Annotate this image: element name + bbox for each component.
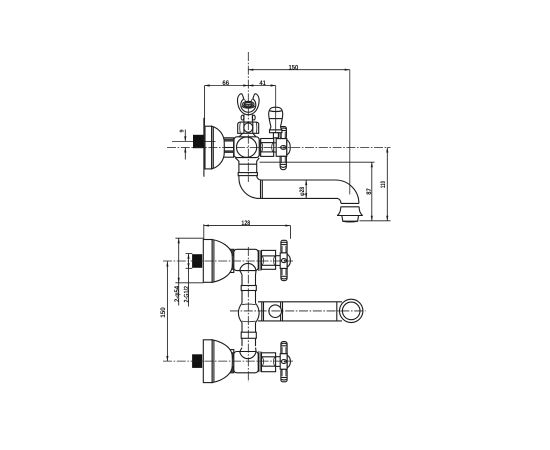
dim 150 vertical <box>160 261 167 361</box>
vertical pipe below valve body <box>235 158 261 199</box>
diverter knob (teardrop) <box>269 107 283 138</box>
inlet assembly 2 (cold, mirrored) <box>192 340 290 383</box>
dim 66 <box>205 80 249 126</box>
vertical pipe edges <box>242 275 256 347</box>
hub stub <box>287 254 290 267</box>
valve body <box>234 249 258 270</box>
nipple hidden line upper <box>172 140 193 142</box>
dim 128 <box>204 220 291 240</box>
cross handle top arm (edge-on) <box>280 127 286 139</box>
hub ellipse <box>281 259 286 263</box>
centerline spout arm <box>230 310 366 312</box>
dim 87 <box>260 162 375 221</box>
dim 150 <box>248 64 349 71</box>
right elbow of spout <box>336 180 359 203</box>
ball junction <box>238 303 259 322</box>
main valve body (top view) <box>234 137 259 158</box>
dim phi28 <box>299 180 306 198</box>
cross handle hub <box>274 142 277 144</box>
branch arch <box>240 263 256 270</box>
hub screw ellipse <box>281 146 287 150</box>
boss circle on arm <box>269 305 282 318</box>
pipe collar lower <box>241 332 256 338</box>
pipe collar upper <box>241 286 256 291</box>
spout outlet tip <box>342 215 359 221</box>
dim phi54 <box>174 238 204 305</box>
handle hub <box>280 253 287 269</box>
spout end cap outer <box>340 299 363 322</box>
svg-text:110: 110 <box>380 181 387 188</box>
shower hose cradle <box>238 94 260 115</box>
spout swivel tube <box>259 180 363 222</box>
spout end cap inner <box>342 302 360 320</box>
centerline horizontal (valve axis) <box>167 146 391 148</box>
svg-text:87: 87 <box>366 188 373 195</box>
nipple hidden line right <box>204 140 216 142</box>
escutcheon nut <box>226 249 234 272</box>
bonnet hex (right side) <box>259 139 273 157</box>
bonnet hex <box>262 250 276 269</box>
escutcheon nut (top view) <box>223 138 234 157</box>
svg-text:41: 41 <box>259 80 266 87</box>
neck between nut and body <box>234 143 239 145</box>
svg-text:φ28: φ28 <box>299 187 306 196</box>
transition hex to body <box>239 134 243 137</box>
spout outlet bell <box>337 207 340 216</box>
centerline inlet1 <box>163 260 293 262</box>
escutcheon flange <box>203 240 212 283</box>
wall nipple (black) <box>193 135 204 148</box>
dim 41 <box>248 80 275 87</box>
svg-text:150: 150 <box>160 307 167 318</box>
svg-text:2-G1/2: 2-G1/2 <box>183 286 190 303</box>
wire wall face line <box>203 118 205 177</box>
svg-text:150: 150 <box>289 64 299 71</box>
centerline inlet2 <box>163 360 293 362</box>
spout outlet collar <box>341 202 359 204</box>
escutcheon flange (top view) <box>205 126 212 169</box>
knob axis extension <box>275 86 277 134</box>
svg-text:9: 9 <box>179 129 185 132</box>
inlet assembly 1 (hot) <box>192 240 290 283</box>
svg-text:66: 66 <box>222 80 229 87</box>
union collar <box>238 173 257 176</box>
spout end axis extension <box>349 70 351 195</box>
left elbow of spout <box>239 178 259 198</box>
svg-text:2-φ54: 2-φ54 <box>174 286 181 302</box>
dim 9 <box>179 129 185 159</box>
skirt <box>240 271 242 275</box>
handle top arm <box>281 240 287 253</box>
escutcheon dome <box>212 240 232 283</box>
centerline vertical (cradle axis) <box>247 52 249 182</box>
stem to handle <box>276 255 281 257</box>
dim 110 <box>360 147 391 220</box>
upper hex block below cradle <box>238 122 259 133</box>
svg-text:128: 128 <box>241 220 250 227</box>
joint lines <box>258 250 260 271</box>
dim 2-G1/2 <box>183 254 192 307</box>
centerline vertical pipe <box>247 247 249 382</box>
neck below cradle <box>241 115 255 123</box>
nipple black rect <box>192 254 202 268</box>
handle bottom arm <box>281 268 287 280</box>
spout arm (front) <box>258 302 342 321</box>
cross handle bottom arm <box>280 156 286 169</box>
hub right bulge <box>287 140 291 155</box>
escutcheon dome (top view) <box>212 126 225 169</box>
